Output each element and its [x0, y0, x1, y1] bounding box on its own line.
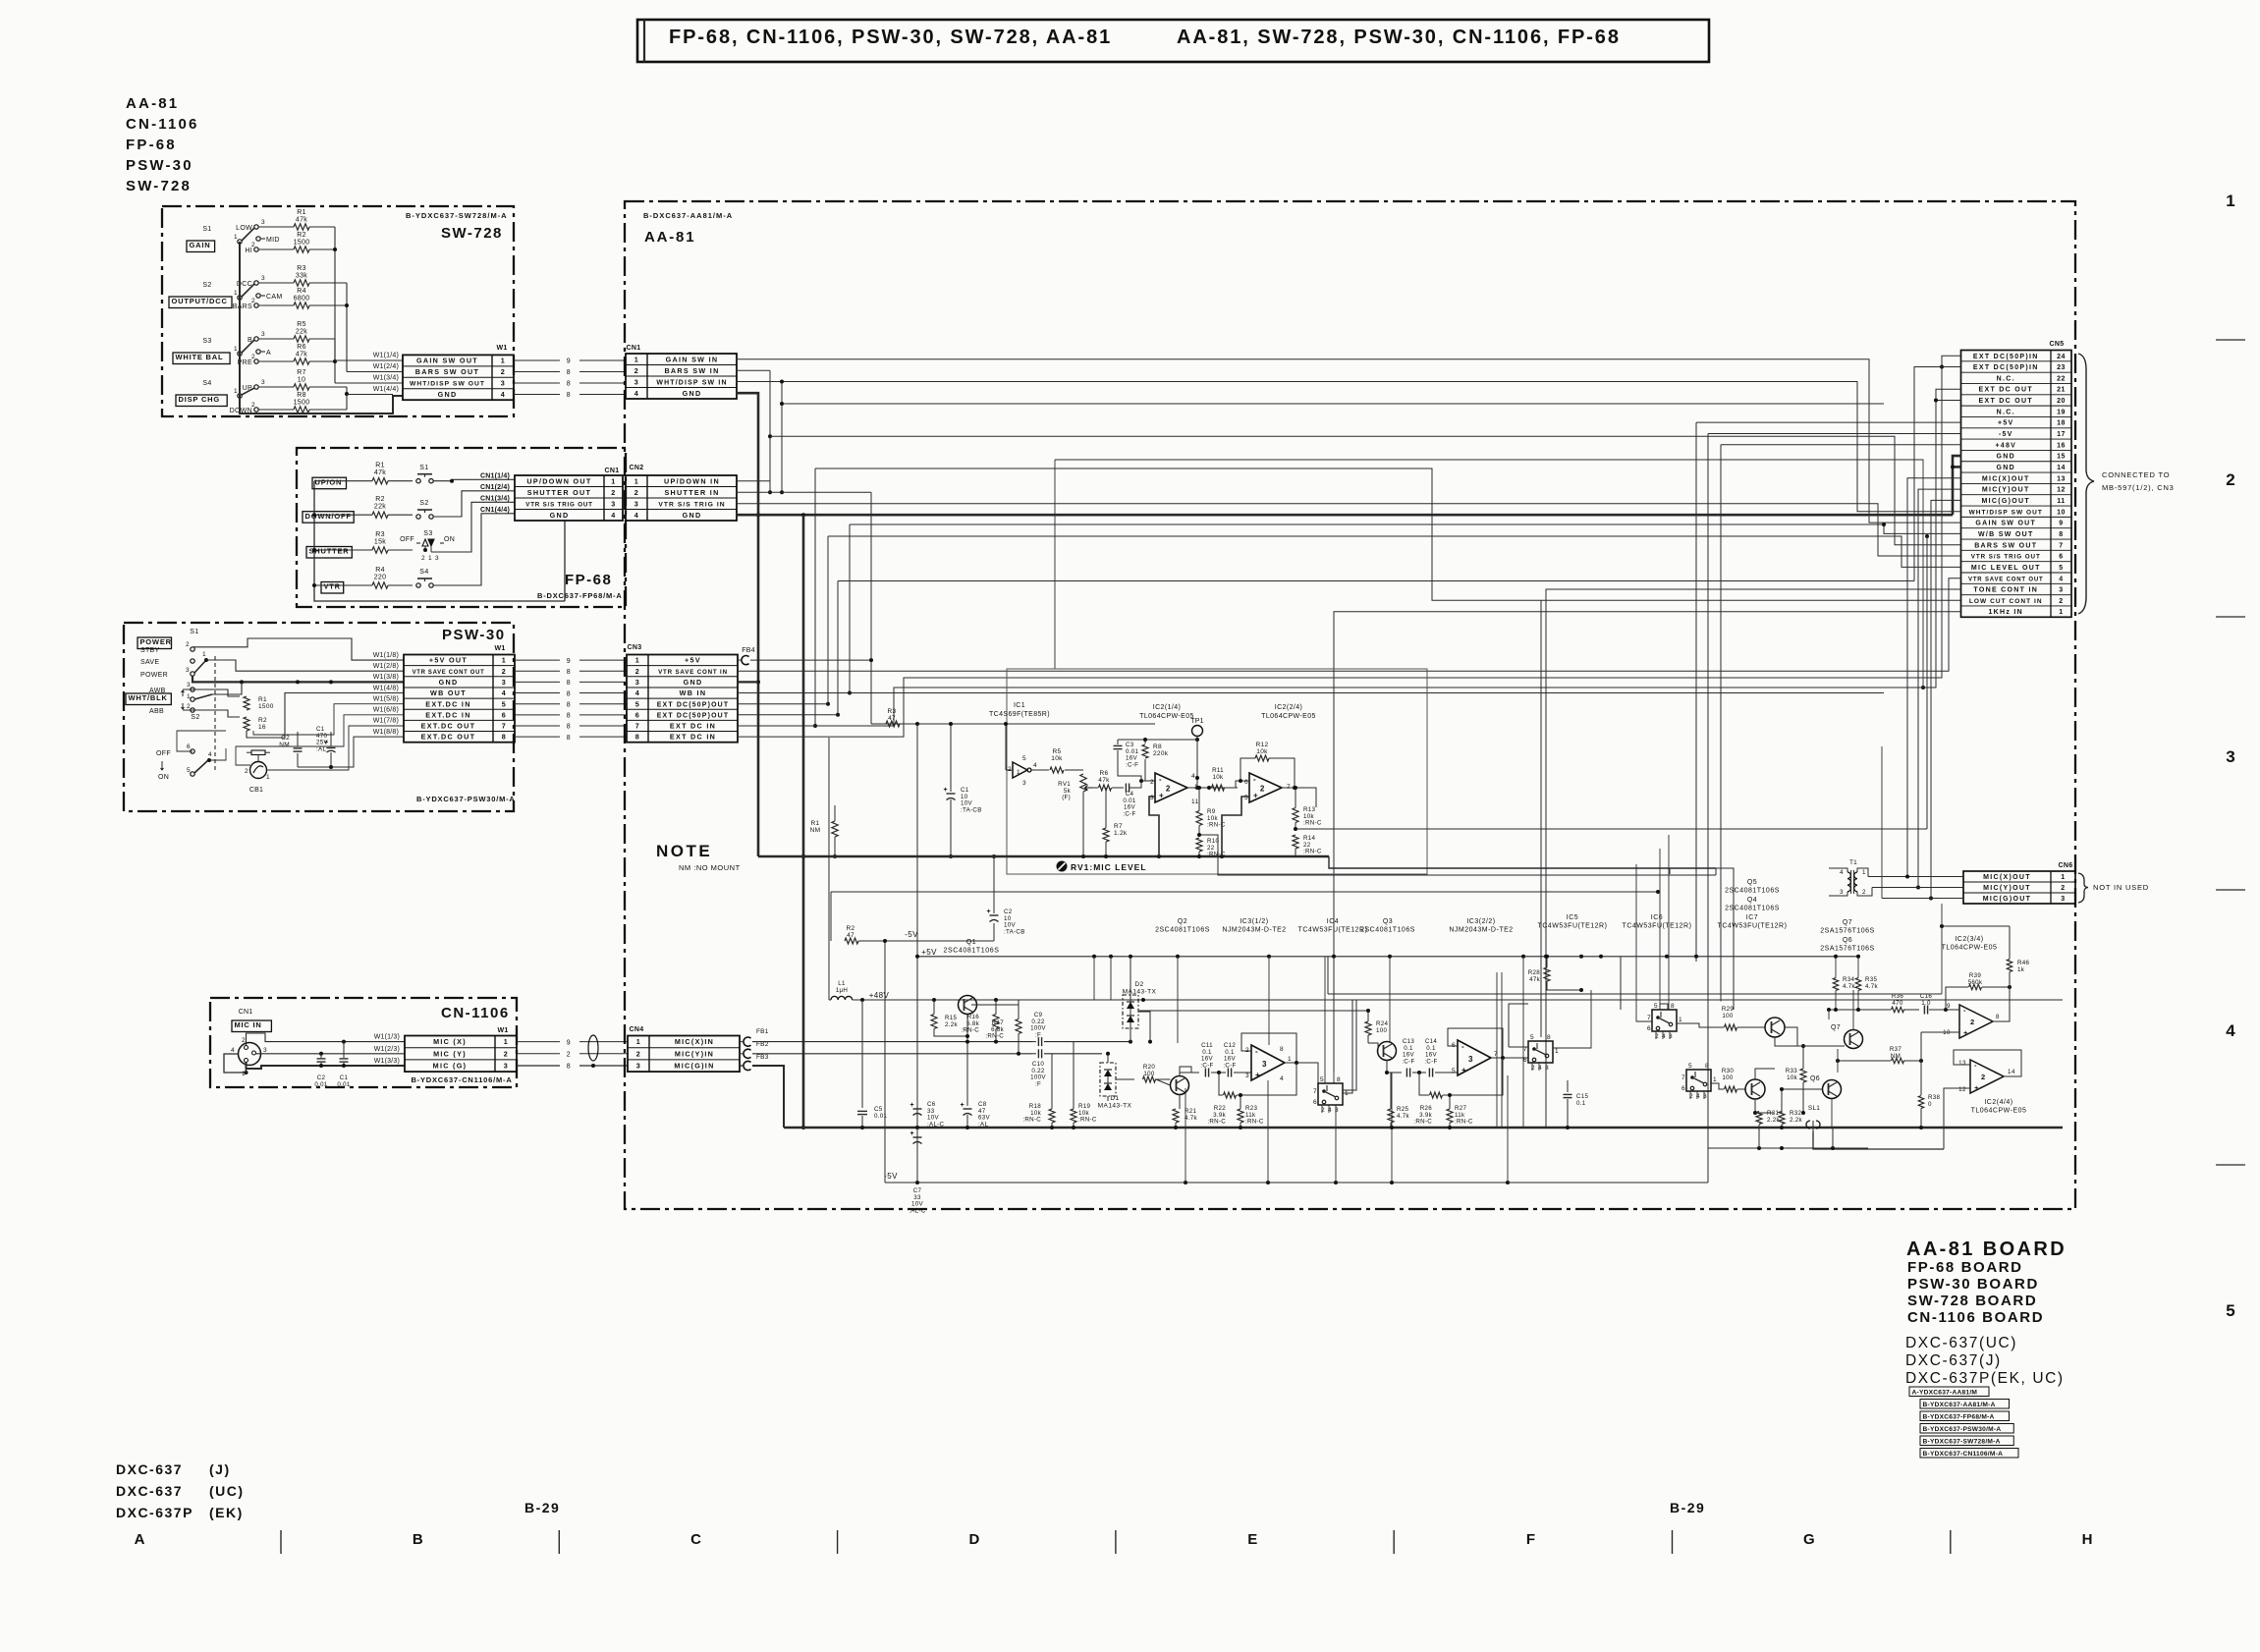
svg-text:5: 5	[1688, 1063, 1692, 1070]
svg-text:MA143-TX: MA143-TX	[1123, 988, 1157, 995]
wire vertical pair right of IC3-2	[1496, 972, 1498, 1128]
svg-text:6: 6	[635, 710, 640, 719]
svg-text:W1(3/4): W1(3/4)	[373, 375, 399, 382]
svg-text:IC5: IC5	[1567, 914, 1578, 921]
capacitor C10 0.22 100V F	[1037, 1049, 1039, 1058]
svg-text:CN1(4/4): CN1(4/4)	[480, 507, 510, 514]
svg-text:9: 9	[567, 658, 571, 665]
wire mic G line	[752, 1066, 784, 1128]
wire IC3-1 out	[1285, 1063, 1318, 1083]
FP-68 left bus	[314, 481, 565, 601]
wire control drop to IC4 pin5	[1324, 957, 1326, 1083]
svg-text:3: 3	[187, 682, 191, 688]
svg-text:2: 2	[567, 1052, 571, 1059]
svg-text:IC2(2/4): IC2(2/4)	[1275, 704, 1303, 711]
wire	[258, 304, 294, 306]
svg-text:W1(1/4): W1(1/4)	[373, 353, 399, 359]
wire CN6 row2	[1872, 887, 1963, 889]
wire GAIN SW net	[737, 359, 1961, 523]
svg-text:IC2(4/4): IC2(4/4)	[1984, 1099, 2012, 1106]
svg-text:8: 8	[1547, 1034, 1551, 1041]
svg-text:-: -	[1159, 775, 1162, 784]
svg-text:E: E	[1247, 1531, 1257, 1548]
svg-text:N.C.: N.C.	[1997, 409, 2015, 415]
svg-text:16: 16	[2057, 442, 2066, 449]
net from y884 down to switches	[1716, 868, 1734, 1010]
svg-text:Q3: Q3	[1383, 918, 1393, 925]
capacitor C1 10 TA-CB	[950, 724, 952, 792]
svg-text:IC2(1/4): IC2(1/4)	[1153, 704, 1182, 711]
wire -5V riser	[1708, 433, 1961, 435]
svg-text:1: 1	[501, 357, 506, 365]
svg-text:8: 8	[1671, 1003, 1675, 1010]
svg-text:6: 6	[2059, 554, 2063, 561]
svg-text:DXC-637: DXC-637	[116, 1483, 183, 1499]
svg-text:3: 3	[261, 219, 265, 226]
svg-text:B-YDXC637-CN1106/M-A: B-YDXC637-CN1106/M-A	[1923, 1451, 2004, 1458]
svg-text:12: 12	[2057, 487, 2066, 494]
transistor Q1	[959, 996, 977, 1015]
+48V rail	[853, 999, 1844, 1001]
svg-text::C-F: :C-F	[1123, 810, 1135, 817]
svg-text:R3: R3	[297, 265, 306, 272]
svg-text:+: +	[961, 1102, 965, 1109]
wire WB IN net	[738, 692, 850, 694]
svg-text:(EK): (EK)	[209, 1505, 244, 1520]
svg-text:3: 3	[1840, 889, 1844, 896]
wire SL1 stem	[1812, 1128, 1814, 1134]
wire Q4 emitter	[1775, 1037, 1794, 1046]
svg-text:FB3: FB3	[756, 1054, 769, 1061]
resistor R27 11k RN-C	[1447, 1109, 1453, 1123]
svg-text:W1(5/8): W1(5/8)	[373, 695, 399, 702]
svg-text:-: -	[1963, 1006, 1966, 1015]
svg-text:FP-68 BOARD: FP-68 BOARD	[1907, 1259, 2023, 1276]
svg-text:220: 220	[374, 575, 387, 581]
svg-text:WHT/DISP SW IN: WHT/DISP SW IN	[656, 379, 727, 386]
svg-text:1: 1	[611, 476, 616, 485]
svg-text:14: 14	[2057, 465, 2066, 471]
vertical x887 upper	[870, 492, 872, 660]
svg-text:ABB: ABB	[149, 708, 164, 715]
svg-text:AA-81: AA-81	[126, 95, 179, 112]
wire EXT DC IN pair jog	[737, 725, 739, 727]
svg-text:OFF: OFF	[400, 536, 414, 543]
wire IC1 out to R5	[1030, 769, 1049, 771]
svg-text:UP/ON: UP/ON	[315, 477, 343, 486]
svg-text:8: 8	[2059, 531, 2063, 538]
svg-text:T1: T1	[1849, 859, 1857, 866]
svg-text:1: 1	[635, 656, 640, 665]
svg-text:3: 3	[261, 379, 265, 386]
wire D2	[1130, 957, 1131, 995]
wire	[258, 386, 294, 388]
svg-text:4: 4	[635, 688, 640, 697]
svg-text:-5V: -5V	[1999, 431, 2013, 438]
svg-text:CN1: CN1	[627, 345, 641, 352]
svg-text:23: 23	[2057, 364, 2066, 371]
svg-text:R5: R5	[297, 321, 306, 328]
svg-text:8: 8	[1280, 1046, 1284, 1053]
wire C4 to IC2 pin2	[1130, 781, 1155, 788]
wire +5V CN3 to FB4	[738, 659, 741, 661]
svg-text:4.7k: 4.7k	[1843, 983, 1856, 990]
svg-text:2SC4081T106S: 2SC4081T106S	[943, 948, 999, 955]
svg-text:CN2: CN2	[630, 465, 644, 471]
panel label VTR	[321, 582, 344, 594]
svg-text:3: 3	[1262, 1060, 1267, 1069]
svg-text:NJM2043M-D-TE2: NJM2043M-D-TE2	[1222, 927, 1286, 934]
svg-text:2: 2	[1970, 1018, 1975, 1026]
svg-text:+: +	[987, 909, 992, 915]
svg-text:+5V OUT: +5V OUT	[429, 656, 468, 665]
svg-text:GAIN SW IN: GAIN SW IN	[666, 355, 719, 363]
svg-text:TL064CPW-E05: TL064CPW-E05	[1942, 945, 1998, 952]
transistor Q3	[1378, 1042, 1397, 1061]
svg-text:CN3: CN3	[628, 644, 642, 651]
svg-text:0.1: 0.1	[1576, 1100, 1586, 1107]
wire	[258, 226, 294, 228]
svg-text:1: 1	[634, 355, 639, 363]
svg-text:MIC(X)OUT: MIC(X)OUT	[1983, 874, 2031, 881]
resistor R32 2.2k	[1779, 1112, 1785, 1125]
svg-text:CB1: CB1	[249, 787, 263, 794]
svg-text:10k: 10k	[1051, 755, 1063, 762]
wire LOW CUT net	[1541, 600, 1961, 1037]
svg-text:TL064CPW-E05: TL064CPW-E05	[1971, 1108, 2027, 1115]
svg-text:1500: 1500	[294, 240, 310, 247]
CN6 not-in-used brace	[2078, 873, 2088, 903]
svg-text:2: 2	[634, 488, 639, 497]
svg-text:3: 3	[634, 499, 639, 508]
svg-text:R2: R2	[297, 232, 306, 239]
svg-text:7: 7	[502, 722, 507, 731]
svg-text:CN1: CN1	[605, 468, 620, 474]
wire net y468	[1055, 460, 1923, 688]
grid column tick marks	[280, 1530, 282, 1554]
svg-text:F: F	[1526, 1531, 1535, 1548]
svg-text:SHUTTER IN: SHUTTER IN	[664, 488, 719, 497]
wire CN1 GND drop	[737, 393, 758, 856]
svg-text:R1: R1	[297, 209, 306, 216]
svg-text:EXT DC(50P)OUT: EXT DC(50P)OUT	[657, 712, 730, 719]
svg-text:5: 5	[1320, 1076, 1324, 1083]
svg-text:S1: S1	[419, 465, 429, 471]
wire R7	[1105, 788, 1107, 828]
svg-text:3: 3	[636, 1062, 641, 1071]
svg-text::RN-C: :RN-C	[961, 1027, 979, 1034]
svg-text:2: 2	[1862, 889, 1866, 896]
svg-text:1: 1	[2061, 874, 2065, 881]
svg-text:10k: 10k	[1213, 774, 1224, 781]
svg-text:MIC(G)IN: MIC(G)IN	[674, 1062, 714, 1071]
svg-text:5: 5	[1022, 755, 1026, 762]
wire	[258, 338, 294, 340]
svg-text:2: 2	[251, 242, 255, 248]
svg-text:2.2k: 2.2k	[1790, 1117, 1803, 1124]
wire R12 loop	[1240, 758, 1255, 781]
T1 wires	[1829, 868, 1847, 872]
svg-text:TONE CONT IN: TONE CONT IN	[1973, 587, 2038, 594]
svg-text:IC6: IC6	[1651, 914, 1663, 921]
svg-text:(F): (F)	[1062, 795, 1071, 801]
wire R3 context	[915, 722, 919, 726]
svg-text:GND: GND	[550, 511, 570, 520]
svg-text:3: 3	[2059, 587, 2063, 594]
svg-text:1: 1	[234, 346, 238, 353]
svg-text:2: 2	[2061, 885, 2065, 892]
svg-text:NOT IN USED: NOT IN USED	[2093, 883, 2149, 892]
IC3(2/2) op-amp	[1458, 1040, 1491, 1075]
svg-text:Q7: Q7	[1843, 919, 1852, 926]
svg-text:W1(2/3): W1(2/3)	[374, 1046, 400, 1053]
svg-text:Q6: Q6	[1843, 937, 1852, 944]
svg-text:1500: 1500	[294, 400, 310, 407]
svg-text:1: 1	[502, 656, 507, 665]
resistor R16 6.8k RN-C	[993, 1015, 999, 1029]
svg-text::C-F: :C-F	[1126, 761, 1138, 768]
svg-text:8: 8	[1337, 1076, 1341, 1083]
long net y1012	[1328, 993, 1942, 995]
svg-text:4: 4	[231, 1047, 235, 1054]
svg-text:W1: W1	[494, 645, 505, 652]
svg-text:MIC IN: MIC IN	[235, 1020, 262, 1029]
svg-text:2: 2	[186, 641, 190, 648]
svg-text::C-F: :C-F	[1424, 1058, 1437, 1065]
op-amp IC2(2/4)	[1249, 773, 1282, 802]
wire Q4-Q7 link	[1785, 1027, 1797, 1046]
svg-text:SW-728 BOARD: SW-728 BOARD	[1907, 1293, 2037, 1309]
FP-68 board outline	[297, 448, 626, 607]
svg-text:MIC(X)OUT: MIC(X)OUT	[1982, 475, 2030, 482]
svg-text:5: 5	[1530, 1034, 1534, 1041]
svg-text:BARS: BARS	[233, 303, 252, 310]
wire net y546	[828, 536, 1961, 567]
svg-text:8: 8	[502, 733, 507, 742]
panel label SHUTTER	[306, 547, 352, 559]
svg-text:3: 3	[635, 678, 640, 687]
svg-text:CN-1106 BOARD: CN-1106 BOARD	[1907, 1309, 2044, 1326]
svg-text:-: -	[1253, 775, 1256, 784]
svg-text:2: 2	[634, 366, 639, 375]
svg-text:3: 3	[634, 377, 639, 386]
svg-text:0.01: 0.01	[337, 1081, 351, 1088]
svg-text:5: 5	[2059, 565, 2063, 572]
svg-text:DXC-637P: DXC-637P	[116, 1505, 193, 1520]
svg-text:4.7k: 4.7k	[1865, 983, 1879, 990]
svg-text:6: 6	[187, 743, 191, 750]
wire IC4 out	[1343, 1000, 1356, 1090]
svg-text:VTR S/S TRIG OUT: VTR S/S TRIG OUT	[1971, 554, 2041, 561]
svg-text:+: +	[1255, 1071, 1260, 1079]
svg-text:2: 2	[251, 298, 255, 304]
svg-text:R2: R2	[847, 925, 855, 932]
svg-text:SW-728: SW-728	[126, 178, 192, 194]
svg-text:R6: R6	[297, 344, 306, 351]
svg-text::RN-C: :RN-C	[1413, 1119, 1432, 1126]
wire VTR SAVE CONT net	[738, 578, 1961, 672]
svg-text:9: 9	[567, 1039, 571, 1046]
IC2(4/4) op-amp	[1970, 1060, 2004, 1093]
wire R22	[1219, 1073, 1223, 1095]
svg-text:W1(7/8): W1(7/8)	[373, 718, 399, 725]
svg-text:DXC-637: DXC-637	[116, 1461, 183, 1477]
svg-text:R3: R3	[375, 531, 385, 538]
wire CN6 row1	[1868, 876, 1963, 878]
svg-text::RN-C: :RN-C	[1207, 822, 1226, 829]
svg-text::TA-CB: :TA-CB	[1004, 928, 1025, 935]
svg-text:+: +	[910, 1130, 915, 1137]
svg-text:S1: S1	[202, 226, 211, 233]
svg-text:R4: R4	[297, 288, 306, 295]
wires EXT DC rows	[253, 704, 404, 735]
svg-text:2: 2	[251, 402, 255, 409]
resistor R14 22 RN-C	[1293, 835, 1298, 849]
svg-text:S4: S4	[202, 380, 211, 387]
svg-text:100: 100	[1722, 1013, 1733, 1019]
svg-text:A: A	[135, 1531, 145, 1548]
svg-text:S4: S4	[419, 569, 429, 576]
wire RV1 bottom	[1082, 792, 1084, 856]
svg-text:1: 1	[202, 651, 206, 658]
svg-text:B-YDXC637-PSW30/M-A: B-YDXC637-PSW30/M-A	[416, 795, 516, 803]
svg-text:B-YDXC637-SW728/M-A: B-YDXC637-SW728/M-A	[1923, 1438, 2001, 1445]
svg-text:OUTPUT/DCC: OUTPUT/DCC	[172, 297, 228, 305]
svg-text:4: 4	[1033, 762, 1037, 769]
svg-text:10: 10	[298, 377, 305, 384]
wire MIC X out net	[1907, 478, 1961, 877]
svg-text:GAIN SW OUT: GAIN SW OUT	[1975, 521, 2036, 527]
svg-text:IC4: IC4	[1327, 918, 1339, 925]
svg-text:4: 4	[634, 511, 639, 520]
svg-text:CN4: CN4	[630, 1026, 644, 1033]
wire mic Y line	[752, 1053, 1032, 1055]
svg-text:S2: S2	[191, 714, 200, 721]
svg-text:(J): (J)	[209, 1461, 231, 1477]
svg-text:W1(3/3): W1(3/3)	[374, 1058, 400, 1065]
svg-text::RN-C: :RN-C	[1303, 820, 1322, 827]
wire net y591	[838, 580, 1914, 582]
-5V rail lower	[885, 1182, 1708, 1184]
svg-text:EXT DC OUT: EXT DC OUT	[1979, 387, 2033, 394]
AA-81 board outline	[625, 201, 2075, 1209]
resistor R21 4.7k	[1173, 1109, 1179, 1123]
capacitor C6 33 AL-C	[916, 1102, 918, 1106]
svg-text:2: 2	[1166, 785, 1171, 794]
svg-text:AWB: AWB	[149, 688, 166, 694]
pot marker RV1 MIC LEVEL	[1057, 861, 1068, 872]
switch IC7	[1686, 1070, 1711, 1091]
wire Q6/Q7 collectors	[1852, 990, 1854, 1030]
svg-text:2: 2	[245, 768, 248, 775]
resistor R31 2.2k	[1756, 1112, 1762, 1125]
svg-text:AA-81 BOARD: AA-81 BOARD	[1906, 1239, 2067, 1260]
svg-text:47k: 47k	[1529, 976, 1540, 983]
wire IC2-2 out	[1282, 788, 1316, 807]
wire MIC G out net	[1931, 500, 1961, 898]
svg-text:CN-1106: CN-1106	[441, 1005, 510, 1021]
svg-text::AL-C: :AL-C	[927, 1121, 945, 1128]
wire Q5 collector	[1755, 1069, 1775, 1079]
vertical x843	[827, 536, 829, 704]
wire R30	[1711, 1083, 1724, 1089]
svg-text:6: 6	[502, 710, 507, 719]
svg-text:2: 2	[636, 1049, 641, 1058]
svg-text:1: 1	[1288, 1056, 1292, 1063]
svg-text:2: 2	[251, 354, 255, 360]
svg-text:1.2k: 1.2k	[1114, 830, 1128, 837]
svg-text:MA143-TX: MA143-TX	[1098, 1102, 1132, 1109]
svg-text:6: 6	[1647, 1025, 1651, 1032]
svg-text:1: 1	[1017, 769, 1020, 776]
svg-text:5: 5	[2226, 1301, 2234, 1320]
wire	[258, 409, 294, 411]
svg-text:4: 4	[208, 751, 212, 758]
svg-text:CN1(2/4): CN1(2/4)	[480, 484, 510, 491]
svg-text:16: 16	[258, 724, 266, 731]
svg-text:B-DXC637-AA81/M-A: B-DXC637-AA81/M-A	[643, 211, 733, 220]
svg-text:EXT DC IN: EXT DC IN	[670, 733, 716, 742]
svg-text:7: 7	[1681, 1074, 1685, 1081]
svg-text::C-F: :C-F	[1223, 1062, 1236, 1069]
svg-text:W1(2/8): W1(2/8)	[373, 663, 399, 670]
wire input rail y737	[871, 723, 1006, 725]
wire IC3-1 fb	[1241, 1033, 1296, 1063]
svg-text:10k: 10k	[1787, 1074, 1797, 1081]
verticals from +5V rail to ICs	[1177, 957, 1179, 1043]
wire IC2-3 out	[1993, 987, 2010, 1021]
svg-text:+: +	[1253, 792, 1258, 800]
svg-text:47k: 47k	[1098, 777, 1110, 784]
wire mic X line	[752, 1041, 1032, 1043]
wire TONE CONT net	[1546, 589, 1961, 1128]
svg-text:DISP CHG: DISP CHG	[179, 395, 221, 404]
svg-text:CN1: CN1	[239, 1009, 253, 1016]
wire MIC LEVEL net	[1926, 536, 1928, 829]
svg-text:4: 4	[611, 511, 616, 520]
svg-text:GND: GND	[684, 678, 703, 687]
svg-text:7: 7	[1494, 1051, 1498, 1058]
svg-text:2.2k: 2.2k	[1767, 1117, 1781, 1124]
svg-text:21: 21	[2057, 387, 2066, 394]
svg-text:NM :NO MOUNT: NM :NO MOUNT	[679, 863, 741, 872]
svg-text:4: 4	[2226, 1021, 2235, 1040]
svg-text:D2: D2	[1134, 981, 1143, 988]
svg-text:15: 15	[2057, 454, 2066, 461]
svg-text:VTR SAVE CONT OUT: VTR SAVE CONT OUT	[1968, 577, 2044, 582]
svg-text:8: 8	[567, 1064, 571, 1071]
wire -5V riser Q3	[1391, 1073, 1393, 1183]
wire -5V left riser	[884, 941, 886, 1183]
wire to table rows	[335, 359, 403, 361]
svg-text:1: 1	[1679, 1017, 1682, 1023]
svg-text:2: 2	[2059, 598, 2063, 605]
svg-text:+48V: +48V	[1995, 442, 2016, 449]
svg-text:WHT/DISP SW OUT: WHT/DISP SW OUT	[410, 381, 485, 388]
svg-text:3: 3	[1022, 780, 1026, 787]
svg-text:7: 7	[1313, 1088, 1317, 1095]
svg-text:N.C.: N.C.	[1997, 375, 2015, 382]
svg-text:W1: W1	[497, 1027, 508, 1034]
svg-text:2SC4081T106S: 2SC4081T106S	[1155, 927, 1210, 934]
svg-text:2: 2	[611, 488, 616, 497]
svg-text:NM: NM	[279, 742, 290, 748]
wire	[314, 514, 372, 516]
svg-text:A: A	[266, 350, 271, 357]
wire R10 to bus	[1198, 852, 1200, 856]
svg-text:WHITE BAL: WHITE BAL	[176, 353, 224, 361]
wire R9	[1198, 788, 1200, 811]
